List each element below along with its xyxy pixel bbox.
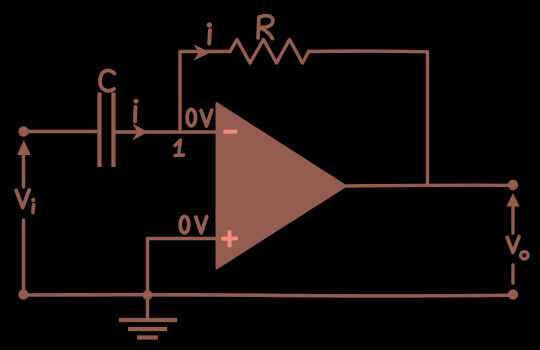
- wire Vi lower lead: [22, 220, 25, 288]
- label 0V (non-inverting input): [180, 216, 189, 233]
- Vo arrow head: [506, 193, 519, 207]
- wire feedback top right: [309, 49, 428, 53]
- wire input node to capacitor: [24, 130, 100, 133]
- label Vo: [507, 237, 519, 253]
- ground bar 3: [137, 335, 158, 339]
- node input top: [18, 126, 28, 136]
- label C: [100, 71, 115, 91]
- dot of i (feedback current): [207, 22, 212, 27]
- label Vi: [16, 190, 29, 208]
- label 0V (inverting input): [187, 109, 195, 126]
- node input bottom: [18, 289, 28, 299]
- junction ground rail: [143, 290, 153, 300]
- capacitor C: [97, 93, 101, 168]
- label 1: [175, 140, 184, 156]
- dot of i (input current): [134, 99, 139, 104]
- op-amp U1: [217, 103, 347, 269]
- op-amp plus sign: [223, 232, 236, 246]
- Vi arrow head: [17, 140, 31, 155]
- dot of i subscript (Vi): [31, 198, 35, 202]
- resistor R zigzag: [230, 40, 309, 64]
- wire non-inverting to ground: [146, 239, 149, 319]
- wire feedback top left: [180, 50, 230, 53]
- ground bar 1: [119, 318, 177, 322]
- bottom rail: [24, 295, 514, 296]
- node output top: [508, 180, 518, 190]
- label R: [258, 16, 273, 39]
- node output bottom: [508, 289, 518, 299]
- ground bar 2: [128, 327, 167, 331]
- Vo arrow shaft: [511, 204, 514, 233]
- wire Vo lower lead: [511, 265, 514, 283]
- current arrow head (feedback): [194, 44, 211, 60]
- wire feedback right vertical: [426, 52, 429, 186]
- wire capacitor to inverting input: [114, 130, 217, 133]
- Vi arrow shaft: [22, 152, 25, 187]
- label i (feedback current): [207, 30, 212, 43]
- wire inverting node up to feedback: [178, 53, 181, 132]
- label i (input current): [133, 107, 137, 122]
- wire op-amp output: [346, 184, 513, 188]
- op-amp minus sign: [225, 130, 236, 134]
- wire non-inverting input: [148, 237, 217, 240]
- current arrow head (input): [133, 124, 149, 141]
